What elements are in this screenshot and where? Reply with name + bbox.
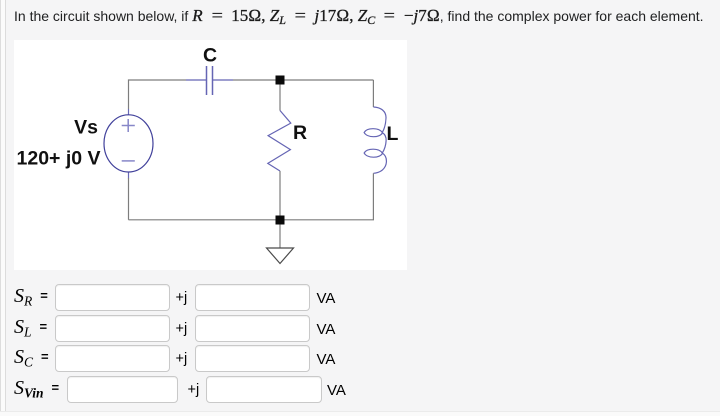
inductor L coil arc 1: [373, 107, 386, 132]
svg-text:Vs: Vs: [74, 117, 98, 139]
row S_L: [0, 315, 720, 343]
wire bottom rail: [129, 219, 375, 221]
wire top rail gray left: [129, 80, 187, 109]
wire capacitor left lead: [186, 79, 206, 81]
node top junction: [276, 76, 285, 85]
svg-text:C: C: [203, 45, 217, 67]
wire capacitor right lead: [213, 79, 233, 81]
minus sign: [122, 160, 135, 162]
ground symbol: [267, 248, 294, 264]
row S_C: [0, 345, 720, 373]
wire right branch lower: [372, 173, 374, 220]
inductor L coil loop 2: [364, 149, 382, 157]
svg-text:L: L: [387, 123, 399, 145]
inductor L coil loop 1: [364, 129, 382, 137]
plus sign: [122, 119, 135, 132]
inductor L coil arc 3: [373, 153, 386, 173]
node bottom junction: [276, 216, 285, 225]
wire resistor branch lower: [279, 171, 281, 216]
row S_R: [0, 284, 720, 312]
wire resistor branch upper: [279, 85, 281, 111]
ground wire: [279, 225, 281, 249]
resistor R zigzag: [268, 111, 291, 172]
voltage source Vs circle: [104, 115, 153, 172]
wire source bottom lead: [128, 172, 130, 179]
capacitor C plates: [206, 66, 208, 95]
svg-text:R: R: [293, 122, 307, 144]
inductor L coil arc 2: [382, 133, 386, 153]
svg-text:120+ j0 V: 120+ j0 V: [17, 148, 101, 170]
wire source top lead blue: [128, 109, 130, 115]
wire top rail gray right: [233, 79, 373, 81]
wire right branch upper: [372, 80, 374, 107]
row S_Vin: [0, 376, 720, 404]
